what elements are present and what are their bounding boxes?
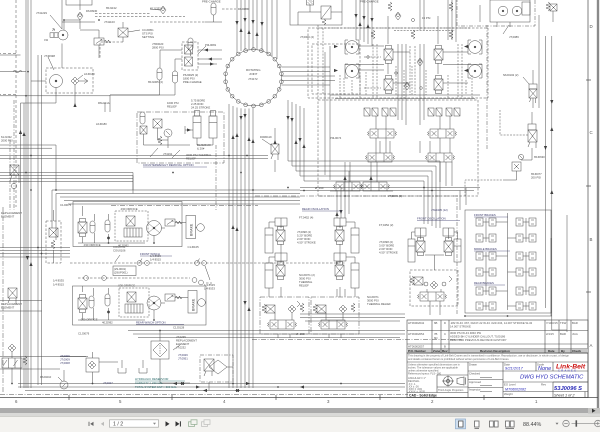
svg-text:REAR WINCH OPTION: REAR WINCH OPTION xyxy=(136,321,166,325)
springs top xyxy=(371,30,375,39)
center link xyxy=(425,255,444,270)
svg-text:PRE-CHARGE: PRE-CHARGE xyxy=(183,80,202,84)
svg-text:C1J0079: C1J0079 xyxy=(78,332,90,336)
65J0630 relief valve xyxy=(465,110,537,196)
small risers to counterweight area xyxy=(105,95,110,112)
toolbar xyxy=(0,417,600,432)
spool valve V1 xyxy=(384,46,393,64)
svg-text:N6J0102 (2): N6J0102 (2) xyxy=(503,73,518,77)
lines valve block to joint xyxy=(198,50,222,64)
svg-text:Inspector: Inspector xyxy=(469,388,481,392)
spool valve V4 xyxy=(434,76,443,94)
svg-text:JT41103: JT41103 xyxy=(104,20,115,24)
front osc manifold xyxy=(410,270,458,306)
svg-text:B: B xyxy=(590,237,593,242)
wire: equipment split dash-dot y196 xyxy=(111,196,462,206)
wire: central vertical bus from rotating joint xyxy=(229,104,253,388)
rear brake L1 xyxy=(476,287,496,295)
svg-text:RELIEF: RELIEF xyxy=(186,157,196,161)
svg-text:JT,0065 (2): JT,0065 (2) xyxy=(388,194,402,198)
svg-text:Zone: Zone xyxy=(433,349,440,353)
svg-text:Weight: Weight xyxy=(504,392,513,396)
circulation block JT40998 dashed xyxy=(46,68,93,93)
svg-text:200 PSI: 200 PSI xyxy=(531,176,541,180)
directional valve row3 left xyxy=(334,182,363,191)
svg-text:RELIEF: RELIEF xyxy=(299,284,309,288)
wire: bottom bus xyxy=(18,384,405,391)
dashed supply lines top xyxy=(95,14,185,17)
last page btn xyxy=(176,421,180,426)
svg-text:.030 ORIFICE: .030 ORIFICE xyxy=(120,207,138,211)
svg-text:JT,0232: JT,0232 xyxy=(176,346,186,350)
zone numbers bottom xyxy=(15,399,538,404)
directional valve row3 right xyxy=(361,182,390,191)
svg-text:REMOVED PREVIOUS REVISION HIST: REMOVED PREVIOUS REVISION HISTORY xyxy=(450,338,507,342)
rear osc manifold left xyxy=(260,297,309,334)
signature dashes xyxy=(480,377,492,379)
svg-text:ELEMENT: ELEMENT xyxy=(1,215,15,219)
layout icon 1 (selected) xyxy=(456,419,466,429)
motor JT,0006 #4 xyxy=(468,64,482,78)
connecting xyxy=(160,382,190,384)
component left mid 61J1332 relief xyxy=(10,165,19,175)
spool valve V3 xyxy=(434,46,443,64)
wire: bank risers right xyxy=(448,0,456,42)
spool valve V2 xyxy=(384,76,393,94)
svg-text:JT4172: JT4172 xyxy=(248,77,258,81)
motor JT,0006 #3 xyxy=(468,40,482,54)
svg-text:None: None xyxy=(538,366,551,372)
right col rows xyxy=(503,370,588,372)
small relief top far right xyxy=(546,2,550,11)
svg-text:BAR: BAR xyxy=(572,321,578,325)
svg-text:Checked: Checked xyxy=(469,372,480,376)
rear osc manifold right xyxy=(311,297,359,334)
svg-text:Referenced specs: FLS-.080: Referenced specs: FLS-.080 xyxy=(408,372,442,376)
revision table column lines xyxy=(431,320,433,353)
next page btn xyxy=(166,421,170,426)
dash-dot link right xyxy=(486,25,488,150)
accumulator xyxy=(89,296,94,308)
dashed pilot box left xyxy=(46,221,61,263)
layout icon 3 xyxy=(490,421,494,427)
svg-text:4.50" STROKE: 4.50" STROKE xyxy=(379,251,398,255)
directional valve row1 left xyxy=(368,129,397,138)
svg-text:This drawing is the property o: This drawing is the property of Link-Bel… xyxy=(408,354,569,358)
front winch box xyxy=(73,202,182,247)
svg-text:.030 ORIFICE: .030 ORIFICE xyxy=(80,318,98,322)
capsule accumulator top xyxy=(211,3,216,15)
svg-text:40J2992: 40J2992 xyxy=(118,243,129,247)
wire: nested distribution lines xyxy=(52,190,300,204)
tank symbols xyxy=(118,368,126,373)
svg-text:P0L0074: P0L0074 xyxy=(330,136,342,140)
brake cylinder xyxy=(186,216,196,239)
svg-text:DWG HYD SCHEMATIC: DWG HYD SCHEMATIC xyxy=(520,375,584,381)
svg-text:BRAKE: BRAKE xyxy=(190,223,194,236)
left small relief at 288 xyxy=(8,288,17,298)
motor JT,0006 #1 xyxy=(345,40,359,54)
N6J0102 valve right xyxy=(523,70,537,108)
svg-text:6D: 6D xyxy=(434,336,438,340)
winch motor xyxy=(147,296,161,310)
drum circle xyxy=(198,299,206,307)
outer dashed box travel circuit xyxy=(308,28,488,98)
pump JT41229 xyxy=(58,30,68,40)
orifice capsule xyxy=(105,220,110,232)
svg-text:C: C xyxy=(590,130,593,135)
middle col rows: drawn/checked/approved/inspector xyxy=(468,370,503,372)
cw cylinder 2 xyxy=(209,116,217,138)
svg-text:4.50" STROKE: 4.50" STROKE xyxy=(297,241,316,245)
svg-text:1/4 8533: 1/4 8533 xyxy=(204,287,215,291)
svg-text:Sheet 1 of 2: Sheet 1 of 2 xyxy=(554,394,575,398)
svg-text:1/4 8515: 1/4 8515 xyxy=(150,258,161,262)
motor control sub-box xyxy=(119,288,149,317)
sheet right inner border xyxy=(587,0,589,398)
motor JT,0006 #2 xyxy=(345,64,359,78)
zone letters right xyxy=(590,24,593,348)
svg-text:HT06002042: HT06002042 xyxy=(408,321,425,325)
svg-text:L6J0160: L6J0160 xyxy=(84,72,95,76)
zoom out xyxy=(563,420,569,426)
middle brake R1 xyxy=(516,252,536,260)
svg-text:65J1132: 65J1132 xyxy=(106,6,117,10)
svg-text:HT06002054: HT06002054 xyxy=(408,332,425,336)
wire: left horizontals y300-311 xyxy=(0,301,42,312)
65J1332 diamond xyxy=(160,6,166,14)
svg-text:P.O. Number: P.O. Number xyxy=(408,349,427,353)
svg-text:RELIEF: RELIEF xyxy=(167,105,177,109)
svg-text:THERMAL RELIEF: THERMAL RELIEF xyxy=(367,302,391,306)
wire: y187-190 horizontals xyxy=(300,188,480,191)
rear osc cylinder group BR xyxy=(351,263,359,288)
wire: carrier split dash-dot bottom xyxy=(0,393,408,395)
relief D0R0119 xyxy=(271,144,279,154)
svg-text:EO Level: EO Level xyxy=(504,383,516,387)
left valve cluster y355-378 xyxy=(2,358,22,368)
middle brake L2 xyxy=(476,268,496,276)
svg-text:TOTAL SYSTEM CAP = 300 GAL: TOTAL SYSTEM CAP = 300 GAL xyxy=(135,385,177,389)
arrows on central bus xyxy=(231,135,234,139)
svg-text:Ø .190: Ø .190 xyxy=(296,332,305,336)
front brake R1 xyxy=(516,218,536,226)
svg-text:7/10/2/15: 7/10/2/15 xyxy=(546,321,558,325)
svg-text:B: B xyxy=(444,345,446,349)
svg-text:C1J0105: C1J0105 xyxy=(188,245,200,249)
connecting lines bank xyxy=(359,46,468,83)
hoist valve xyxy=(78,219,87,237)
cell clusters row y108 xyxy=(364,108,460,116)
revision row texts xyxy=(408,321,578,349)
svg-text:P0L0081: P0L0081 xyxy=(205,43,217,47)
svg-text:JT41229: JT41229 xyxy=(36,11,47,15)
svg-text:COUNTERWEIGHT REMOVAL OPTION: COUNTERWEIGHT REMOVAL OPTION xyxy=(143,163,194,167)
middle brake R2 xyxy=(516,268,536,276)
gauge R6J0210 xyxy=(60,381,68,389)
wire: brakes feed xyxy=(465,316,567,330)
cw cylinder 1 xyxy=(193,116,201,138)
svg-text:65J0630: 65J0630 xyxy=(534,155,545,159)
svg-text:JT,0086: JT,0086 xyxy=(509,35,519,39)
rear osc cylinder group TL xyxy=(265,228,273,253)
svg-text:PRE-CHARGE: PRE-CHARGE xyxy=(202,0,221,4)
drum circle xyxy=(197,224,205,232)
wire: left horizontals y356-370 xyxy=(0,357,88,370)
svg-text:FRONT BRAKES: FRONT BRAKES xyxy=(474,213,496,217)
svg-text:C1J0075: C1J0075 xyxy=(60,203,72,207)
accumulator capsule xyxy=(140,112,145,124)
dashes around xyxy=(150,21,205,23)
page box xyxy=(110,420,159,427)
svg-text:BRAKE: BRAKE xyxy=(192,298,196,311)
svg-text:1/4 8515: 1/4 8515 xyxy=(53,283,64,287)
accumulator xyxy=(90,221,95,233)
svg-text:JOINT: JOINT xyxy=(249,72,258,76)
hoist valve xyxy=(78,295,87,313)
brake cylinder xyxy=(188,291,197,314)
wire: long right vertical lines xyxy=(539,15,552,316)
zone ticks bottom xyxy=(69,395,484,400)
svg-text:R6L021A: R6L021A xyxy=(98,101,110,105)
svg-text:14.007 STROKE: 14.007 STROKE xyxy=(450,325,471,329)
svg-text:JT40998: JT40998 xyxy=(44,54,55,58)
revision table frame xyxy=(407,320,588,353)
directional valve row1 right xyxy=(428,129,457,138)
svg-text:A: A xyxy=(590,343,593,348)
zoom in (cut off) xyxy=(595,420,600,426)
leaders xyxy=(150,148,158,157)
svg-text:JGG: JGG xyxy=(572,332,578,336)
wire: right mid vertical bundle xyxy=(337,171,349,297)
rear osc cylinder group TR xyxy=(351,228,359,253)
svg-text:JTA0445 (12): JTA0445 (12) xyxy=(431,208,448,212)
svg-text:MIDDLE BRAKES: MIDDLE BRAKES xyxy=(474,247,497,251)
wire: left vertical bus bundle xyxy=(21,0,32,388)
svg-text:53J0096 S: 53J0096 S xyxy=(554,386,582,392)
directional valve row2 left xyxy=(366,153,395,162)
wire: top left risers xyxy=(62,0,80,29)
first page btn xyxy=(90,422,93,426)
svg-text:Drawn: Drawn xyxy=(469,363,478,367)
rear brake L2 xyxy=(476,302,496,310)
svg-text:D: D xyxy=(444,321,446,325)
svg-text:HT06002057: HT06002057 xyxy=(408,345,425,349)
svg-text:By: By xyxy=(561,349,565,353)
wire: joint right taps xyxy=(282,67,336,85)
svg-text:REAR BRAKES: REAR BRAKES xyxy=(474,281,494,285)
front osc cylinder right xyxy=(454,239,461,262)
svg-text:JT,0008: JT,0008 xyxy=(60,361,70,365)
svg-text:Revision Description: Revision Description xyxy=(480,349,510,353)
tolerance box divider xyxy=(467,362,469,398)
svg-text:and details contained herein i: and details contained herein is prohibit… xyxy=(408,357,509,361)
front osc cylinder left xyxy=(408,239,415,262)
small valve JT,0027 xyxy=(86,358,99,372)
svg-text:CAD - Solid Edge: CAD - Solid Edge xyxy=(409,394,437,398)
rear counter dash xyxy=(78,277,125,279)
svg-text:C: C xyxy=(444,332,446,336)
lines to left bus xyxy=(0,55,46,81)
svg-text:FRONT WINCH: FRONT WINCH xyxy=(140,252,160,256)
wire: joint right-bottom bundle bending right xyxy=(288,100,440,228)
rotating joint JT4172 xyxy=(225,49,281,105)
relief w spring circle xyxy=(164,129,172,137)
legal text rows xyxy=(407,361,588,363)
wire: osc lower dash-dot boundary xyxy=(252,338,462,340)
wire: top center risers xyxy=(356,0,372,46)
wire: left horizontal bus y155 xyxy=(0,156,268,159)
brakes enclosure xyxy=(465,210,551,313)
svg-text:40J2992: 40J2992 xyxy=(102,321,113,325)
pressure reducing box xyxy=(153,119,162,128)
svg-text:1 / 2: 1 / 2 xyxy=(113,421,123,427)
sheet right outer thick border xyxy=(597,0,599,410)
layout icon 2 xyxy=(475,421,480,427)
top right pump block JT,0086 xyxy=(457,0,535,34)
wire: mid horizontal y330-337 xyxy=(128,331,405,338)
svg-text:D0R0119: D0R0119 xyxy=(260,135,272,139)
counterweight removal option box xyxy=(137,112,224,163)
svg-text:65J1332: 65J1332 xyxy=(150,7,161,11)
risers between rows xyxy=(376,116,450,129)
svg-text:TKW: TKW xyxy=(560,321,567,325)
breather assembly right xyxy=(200,355,233,382)
winch motor xyxy=(147,221,162,236)
svg-text:D: D xyxy=(590,24,593,29)
svg-text:(29UP001): (29UP001) xyxy=(114,271,128,275)
wire: osc-to-table horizontals xyxy=(300,314,405,321)
svg-text:D6J0930: D6J0930 xyxy=(86,9,98,13)
orifice capsule xyxy=(105,294,110,306)
middle brake L1 xyxy=(476,252,496,260)
svg-text:MT06002082: MT06002082 xyxy=(505,388,526,392)
dash-dot boundary left of brakes xyxy=(456,198,458,315)
prev page btn (disabled) xyxy=(101,422,104,426)
check 15 PSI xyxy=(395,12,401,20)
brake release valve xyxy=(165,294,182,301)
next view icon (disabled) xyxy=(202,420,211,427)
accumulator JTR0020 xyxy=(188,38,193,50)
svg-text:L6J0180: L6J0180 xyxy=(96,122,107,126)
zone ticks right xyxy=(586,80,591,292)
svg-text:C1J0128: C1J0128 xyxy=(173,326,185,330)
wire: left horizontals y247-258 winch feed xyxy=(0,248,70,258)
counter line dash xyxy=(70,262,345,264)
layout icon 4 xyxy=(506,421,510,427)
svg-text:65J1005 (2): 65J1005 (2) xyxy=(148,80,163,84)
rear winch option box xyxy=(73,286,207,325)
svg-text:COU0106: COU0106 xyxy=(113,249,126,253)
svg-text:PRE-CHARGE: PRE-CHARGE xyxy=(360,0,379,4)
svg-text:2/4/15: 2/4/15 xyxy=(546,332,554,336)
svg-text:JT,0027: JT,0027 xyxy=(103,381,113,385)
front brake L1 xyxy=(476,218,496,226)
return filter xyxy=(151,341,169,359)
svg-text:FRONT OSCILLATION: FRONT OSCILLATION xyxy=(417,217,446,221)
svg-text:Rev: Rev xyxy=(442,349,448,353)
directional valve row2 right xyxy=(426,153,455,162)
accumulators pair xyxy=(157,68,162,80)
blue entries xyxy=(505,366,584,393)
svg-text:FT,0452 (4): FT,0452 (4) xyxy=(299,216,313,220)
svg-text:Rev: Rev xyxy=(541,383,547,387)
check valve D6J0930 xyxy=(77,12,83,20)
svg-text:2800 PSI: 2800 PSI xyxy=(152,46,164,50)
accumulator charge valve box xyxy=(290,0,342,25)
svg-text:2000 PSI: 2000 PSI xyxy=(1,139,13,143)
wire: left horizontal pair y145-148 xyxy=(0,145,56,190)
svg-text:JT,0006 (4): JT,0006 (4) xyxy=(300,35,314,39)
svg-text:FT,0452 (2): FT,0452 (2) xyxy=(379,223,393,227)
valve block P0L0081 dashed xyxy=(182,42,198,70)
svg-text:9/21/2017: 9/21/2017 xyxy=(505,366,524,371)
svg-text:R6J0210: R6J0210 xyxy=(40,375,52,379)
svg-text:BHR: BHR xyxy=(560,332,566,336)
svg-text:CRANES: CRANES xyxy=(558,369,577,373)
svg-text:Date: Date xyxy=(548,349,555,353)
svg-text:Third Angle Projection: Third Angle Projection xyxy=(438,388,464,392)
brake release valve xyxy=(165,219,182,226)
svg-text:24.25 STROKE: 24.25 STROKE xyxy=(191,106,210,110)
front brake L2 xyxy=(476,234,496,242)
wire: left horizontal bundle y172-182 xyxy=(0,173,133,182)
svg-text:ELEMENT: ELEMENT xyxy=(1,306,15,310)
front brake R2 xyxy=(516,234,536,242)
main block outline xyxy=(407,353,588,398)
svg-text:SETTING: SETTING xyxy=(142,35,154,39)
svg-text:6B: 6B xyxy=(434,321,438,325)
svg-text:.030 ORIFICE: .030 ORIFICE xyxy=(83,243,101,247)
svg-text:JT,0951: JT,0951 xyxy=(178,357,188,361)
slider xyxy=(572,423,597,425)
wire: dash-dot left boundary xyxy=(2,207,4,392)
svg-text:.030 ORIFICE: .030 ORIFICE xyxy=(118,284,136,288)
CCJ0951 pressure setting block xyxy=(118,28,128,37)
svg-text:D6J0880: D6J0880 xyxy=(238,7,250,11)
svg-text:Check: Check xyxy=(572,349,581,353)
svg-text:REAR OSCILLATION: REAR OSCILLATION xyxy=(302,207,329,211)
horizontal scrollbar xyxy=(0,408,600,413)
header row fill xyxy=(407,349,588,354)
rear brake R2 xyxy=(516,302,536,310)
wire: left vertical dash-dot lines xyxy=(0,0,16,207)
svg-text:15 PSI: 15 PSI xyxy=(422,16,431,20)
prev view icon xyxy=(189,420,198,427)
third angle projection icon xyxy=(444,377,453,386)
box top cut xyxy=(66,0,92,5)
svg-text:88.44%: 88.44% xyxy=(523,422,541,428)
motor control sub-box xyxy=(115,211,148,241)
svg-text:& 20#: & 20# xyxy=(197,147,205,151)
svg-text:Approved: Approved xyxy=(469,380,481,384)
svg-text:JT4191: JT4191 xyxy=(163,152,173,156)
valve JT41103 xyxy=(94,38,111,45)
rear osc cylinder group BL xyxy=(265,263,273,288)
svg-text:Ø .190: Ø .190 xyxy=(315,186,324,190)
bank cross lines xyxy=(330,65,482,99)
wire: top joint risers xyxy=(237,0,277,59)
sheet bottom border xyxy=(0,397,598,399)
title block texts xyxy=(408,321,586,398)
rear brake R1 xyxy=(516,287,536,295)
